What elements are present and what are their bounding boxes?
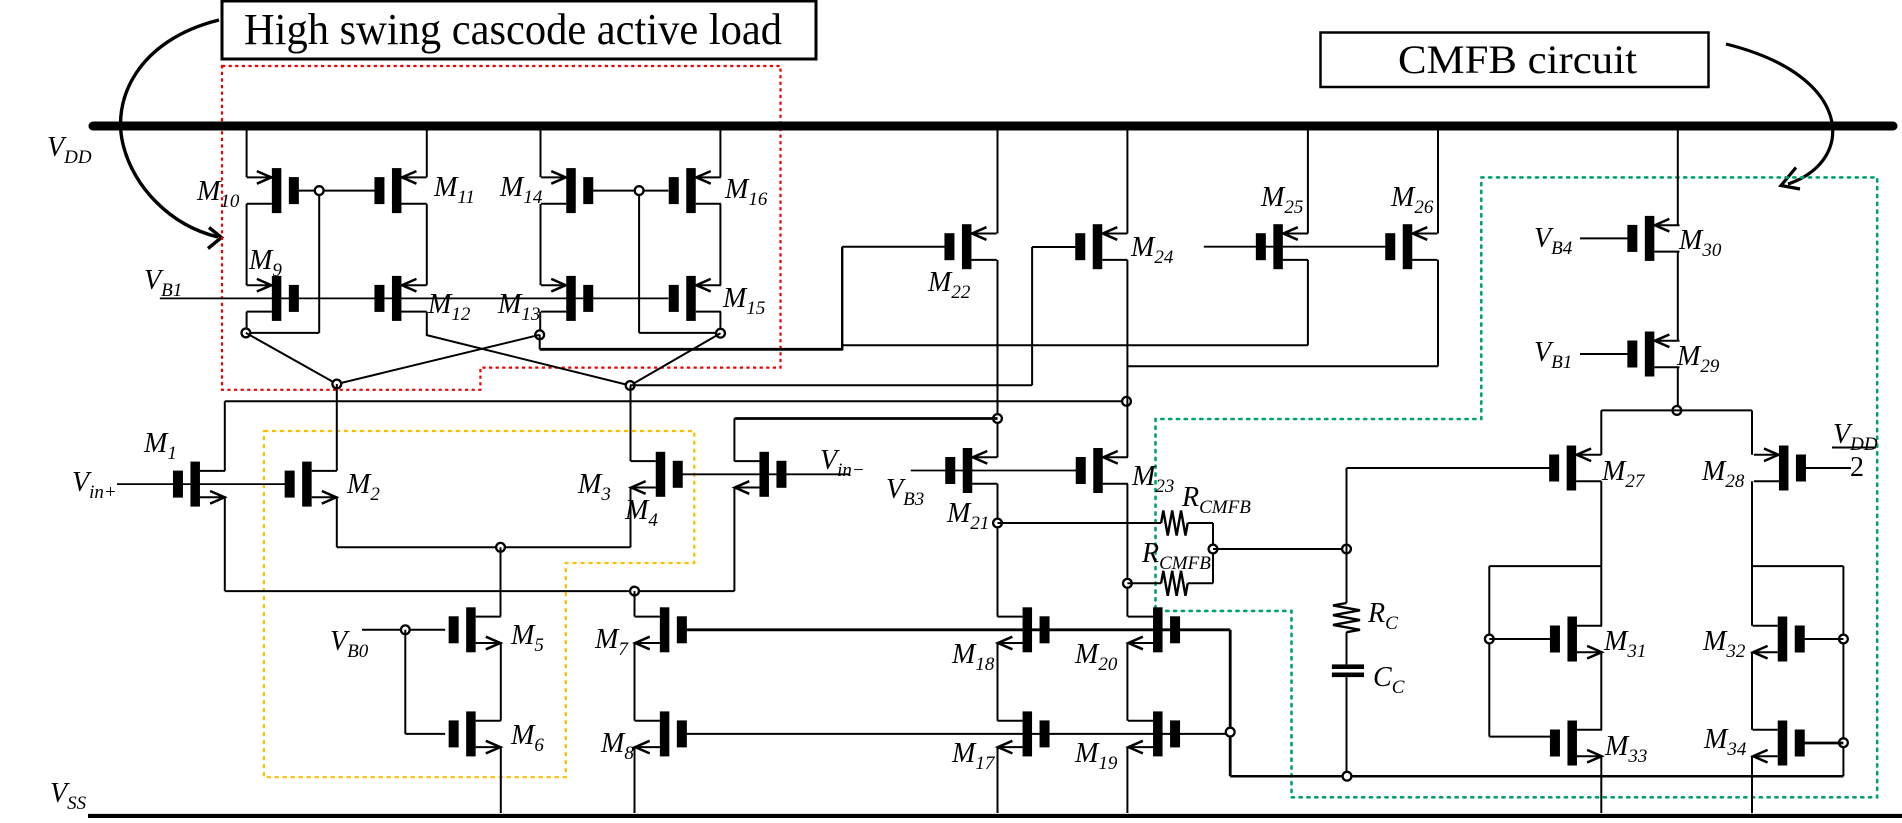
node M31/M33 gates xyxy=(1485,635,1494,644)
transistor M25 xyxy=(1256,224,1308,269)
wire M21 drain to M18 drain column xyxy=(997,484,999,617)
node R_CMFB tap on output1 column xyxy=(993,519,1002,528)
title box: CMFB circuit xyxy=(1321,33,1709,88)
node C xyxy=(332,380,341,389)
wire gate bus down column xyxy=(1229,630,1232,776)
wire M32 source to M34 drain xyxy=(1751,652,1753,730)
wire gate node column to node A xyxy=(318,191,320,333)
wire M10 drain to M9 source xyxy=(246,204,248,285)
node tail of M7 column xyxy=(630,587,639,596)
transistor M27 xyxy=(1549,446,1601,491)
wire to M33 gate xyxy=(1489,736,1551,738)
wire M28 drain column xyxy=(1751,481,1753,626)
wire M34 source to VSS xyxy=(1751,756,1753,813)
wire M17 source to VSS xyxy=(997,747,999,813)
green dashed outline: CMFB circuit region xyxy=(1156,177,1878,797)
node B (M13 drain) xyxy=(535,330,544,339)
wire to M22 gate xyxy=(842,246,946,248)
wire output2 tap to R_CMFB lower xyxy=(1127,582,1161,584)
wire M13 drain down to node B xyxy=(539,312,541,335)
transistor M9 xyxy=(247,276,299,321)
node RC top xyxy=(1342,545,1351,554)
wire R_CMFB upper to mid node xyxy=(1212,523,1214,549)
wire diagonal node D to node E xyxy=(630,333,720,385)
wire M12 drain down xyxy=(426,312,428,337)
wire C_C to feedback bus xyxy=(1346,677,1348,776)
wire VB4 to M30 gate xyxy=(1580,237,1629,239)
node R_CMFB tap on output2 column xyxy=(1123,579,1132,588)
transistor M23 xyxy=(1076,448,1128,493)
node tail of diff pair xyxy=(496,543,505,552)
transistor M30 xyxy=(1627,216,1679,261)
node A (M9 drain) xyxy=(242,329,251,338)
transistor M15 xyxy=(669,276,721,321)
wire M1/M4 source bus xyxy=(225,590,735,592)
wire M22 gate column xyxy=(841,247,843,351)
transistor M26 xyxy=(1385,224,1437,269)
transistor M21 xyxy=(945,448,997,493)
transistor M28 xyxy=(1754,446,1806,491)
wire M24 gate column xyxy=(1031,247,1033,385)
wire diagonal node C to node B xyxy=(337,335,540,384)
wire node down to M7 drain xyxy=(634,591,636,617)
wire Vin+ line through M1 to M2 gate xyxy=(117,483,294,485)
wire M24 source to VDD xyxy=(1126,126,1128,234)
transistor M20 xyxy=(1128,607,1180,652)
transistor M34 xyxy=(1753,721,1805,766)
node output1 xyxy=(993,414,1002,423)
wire M1 drain bus to output2 xyxy=(225,400,1127,402)
wire M14/M16 gate interconnect xyxy=(589,190,668,192)
node D xyxy=(626,381,635,390)
wire VB1 bias line to M9/M12/M13/M15 gates xyxy=(160,297,669,299)
wire M34 gate xyxy=(1804,742,1843,745)
wire VB0 to M5 gate xyxy=(362,629,445,631)
transistor M22 xyxy=(944,224,996,269)
transistor M7 xyxy=(635,607,687,652)
node M32 gate xyxy=(1839,635,1848,644)
wire M3 source down to tail xyxy=(630,488,632,548)
wire M28 drain to M32/M34 gate column xyxy=(1752,565,1843,567)
resistor R_CMFB lower xyxy=(1161,571,1188,596)
red dashed outline: high swing cascode active load region xyxy=(222,66,781,390)
wire M19 source to VSS xyxy=(1126,747,1128,813)
node M34 gate xyxy=(1839,738,1848,747)
transistor M8 xyxy=(635,711,687,756)
transistor M5 xyxy=(449,607,501,652)
wire M31 source to M33 drain xyxy=(1600,652,1602,730)
wire M18 source to M17 drain xyxy=(997,643,999,721)
wire M16 source to VDD xyxy=(719,126,721,177)
wire gate bus M7-M18-M20 xyxy=(683,628,1230,631)
pointer arrow from CMFB title box to CMFB dashed box xyxy=(1726,44,1833,184)
wire M6 source to VSS xyxy=(500,747,502,813)
transistor M1 xyxy=(173,462,225,507)
transistor M3 xyxy=(631,452,683,497)
wire M26 source to VDD xyxy=(1437,126,1439,234)
svg-text:High swing cascode active load: High swing cascode active load xyxy=(244,5,782,54)
node gate bus junction xyxy=(1226,728,1235,737)
transistor M33 xyxy=(1550,721,1602,766)
svg-text:2: 2 xyxy=(1850,452,1864,483)
wire M2 source down to tail xyxy=(336,497,338,547)
wire tail down to M5 drain xyxy=(500,547,502,616)
wire VB1 to M29 gate xyxy=(1580,353,1629,355)
wire M10/M11 gate interconnect xyxy=(295,190,377,192)
wire VB3 line through M21 to M23 gate xyxy=(911,470,1078,472)
transistor M13 xyxy=(541,276,593,321)
wire M33 source to VSS xyxy=(1600,756,1602,813)
wire M22 source to VDD xyxy=(997,126,999,234)
transistor M6 xyxy=(449,711,501,756)
transistor M4 xyxy=(734,452,786,497)
pointer arrow from title box to cascode load box xyxy=(121,20,219,237)
node C_C bottom xyxy=(1343,772,1352,781)
wire to M31 gate xyxy=(1489,638,1551,640)
transistor M10 xyxy=(247,168,299,213)
transistor M12 xyxy=(374,276,426,321)
wire gate bus M8-M17-M19 xyxy=(683,733,1230,735)
transistor M11 xyxy=(374,168,426,213)
node on output2 column xyxy=(1122,397,1131,406)
wire M1 drain up to bus xyxy=(224,401,226,471)
wire diagonal M12 drain to node D xyxy=(427,335,630,385)
wire RC node down to resistor xyxy=(1346,549,1348,603)
wire M9 drain down to node A xyxy=(246,312,248,333)
wire gate node column to node E xyxy=(638,191,640,333)
wire M7 source to M8 drain xyxy=(634,643,636,721)
wire RC node up to M27 gate xyxy=(1346,468,1348,549)
wire M1 source down xyxy=(224,497,226,591)
transistor M24 xyxy=(1075,224,1127,269)
node VB0 xyxy=(401,625,410,634)
wire M3 drain up to node D xyxy=(630,386,632,462)
wire to M24 gate xyxy=(1032,246,1077,248)
wire M3/M4 gate line to Vin- xyxy=(679,473,850,475)
wire output2 upper column M24 drain to M23 source xyxy=(1126,260,1128,457)
node CMFB tail xyxy=(1673,406,1682,415)
wire mid node to RC node xyxy=(1213,548,1347,550)
transistor M19 xyxy=(1128,711,1180,756)
wire M23 drain to M20 drain column xyxy=(1126,484,1128,617)
wire R_CMFB lower to mid node xyxy=(1212,549,1214,583)
transistor M29 xyxy=(1627,332,1679,377)
transistor M17 xyxy=(997,711,1049,756)
VDD rail xyxy=(93,122,1893,131)
VSS rail xyxy=(88,814,1902,819)
wire M14 source to VDD xyxy=(540,126,542,177)
node M14/M16 gates xyxy=(635,186,644,195)
transistor M16 xyxy=(669,168,721,213)
wire M8 source to VSS xyxy=(634,747,636,813)
wire M10 source to VDD xyxy=(246,126,248,177)
title box: High swing cascode active load xyxy=(222,1,816,59)
wire M11 source to VDD xyxy=(426,126,428,177)
wire CMFB feedback bus xyxy=(1230,775,1843,778)
wire output1 tap to R_CMFB upper xyxy=(998,522,1162,524)
transistor M14 xyxy=(541,168,593,213)
wire M28 gate to VDD/2 xyxy=(1806,467,1851,469)
wire output1 upper column M22 drain to M21 source xyxy=(997,260,999,457)
node R_CMFB mid xyxy=(1209,545,1218,554)
wire M29 drain to CMFB tail xyxy=(1677,367,1679,410)
wire M27 drain column xyxy=(1600,481,1602,626)
transistor M2 xyxy=(285,462,337,507)
wire M15 drain down to node E xyxy=(719,312,721,333)
transistor M18 xyxy=(997,607,1049,652)
wire VB0 node down to M6 gate xyxy=(404,630,406,734)
wire M11 drain to M12 source xyxy=(426,204,428,285)
wire M4 source down xyxy=(733,488,735,592)
wire M32 gate xyxy=(1804,638,1843,640)
wire M27 drain to M31/M33 gate column xyxy=(1489,565,1601,567)
wire M25/M26 gate line xyxy=(1204,246,1387,248)
resistor R_CMFB upper xyxy=(1161,511,1188,536)
transistor M31 xyxy=(1550,617,1602,662)
wire M30 drain to M29 source xyxy=(1677,252,1679,341)
transistor M32 xyxy=(1753,617,1805,662)
wire node B down to output bus xyxy=(539,335,541,350)
orange dashed outline: input / bias region xyxy=(264,431,694,777)
wire R_C to C_C xyxy=(1346,632,1348,664)
wire M14 drain to M13 source xyxy=(540,204,542,285)
wire M30 source to VDD xyxy=(1677,126,1679,225)
wire output1 to M4 drain branch xyxy=(734,417,997,420)
wire M16 drain to M15 source xyxy=(719,204,721,285)
node M10/M11 gates xyxy=(315,186,324,195)
wire M25 drain to M22 gate column xyxy=(842,344,1308,346)
wire tail bus M2/M3 sources xyxy=(337,546,631,548)
wire CMFB tail bus xyxy=(1601,409,1752,411)
wire M2 drain up to node C xyxy=(336,384,338,471)
wire M26 drain stub xyxy=(1437,260,1439,366)
wire M26 drain to output2 column xyxy=(1127,365,1438,367)
wire output bus B to M22 gate column xyxy=(540,348,843,351)
node E (M15 drain) xyxy=(716,329,725,338)
wire node D to M24 gate column xyxy=(630,384,1032,386)
svg-text:CMFB circuit: CMFB circuit xyxy=(1398,37,1637,82)
resistor R_C xyxy=(1333,603,1360,632)
wire M20 source to M19 drain xyxy=(1126,643,1128,721)
capacitor C_C xyxy=(1332,664,1364,669)
wire diagonal node A to node C xyxy=(246,333,337,384)
wire M25 drain stub xyxy=(1307,260,1309,345)
wire M25 source to VDD xyxy=(1307,126,1309,234)
wire M5 source to M6 drain xyxy=(500,643,502,721)
